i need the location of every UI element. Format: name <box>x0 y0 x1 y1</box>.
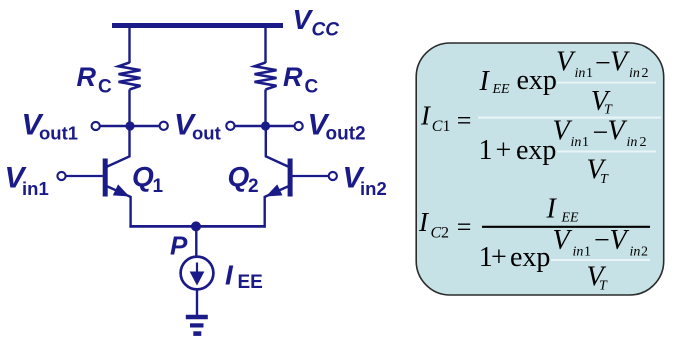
wire node B to collector Q2 <box>266 126 289 167</box>
transistor Q2 emitter arrow <box>267 185 282 196</box>
transistor Q1 emitter <box>107 186 130 197</box>
formula IC1 light fraction bar exponent top <box>557 82 656 84</box>
terminal Vout2 <box>295 122 303 130</box>
ground bar 1 <box>186 315 208 320</box>
svg-text:1: 1 <box>443 118 451 135</box>
formula IC1 light fraction bar main <box>478 116 661 118</box>
svg-text:1: 1 <box>582 135 589 150</box>
svg-text:EE: EE <box>561 211 580 226</box>
svg-text:out: out <box>192 123 221 144</box>
svg-text:1: 1 <box>586 66 593 81</box>
svg-text:V: V <box>610 47 630 78</box>
formula IC2 light fraction bar exponent <box>551 259 650 261</box>
current source IEE arrow shaft <box>196 263 198 273</box>
wire current source to ground <box>196 289 198 315</box>
svg-text:in: in <box>575 66 586 81</box>
formula IC2 fraction bar <box>482 226 650 228</box>
junction node A <box>125 121 134 130</box>
junction node P <box>191 221 201 231</box>
svg-text:V: V <box>553 225 573 256</box>
svg-text:exp: exp <box>516 135 556 166</box>
wire Vout1 terminal to node A <box>99 125 130 127</box>
svg-text:I: I <box>225 260 234 291</box>
svg-text:Q: Q <box>228 161 250 192</box>
svg-text:in: in <box>627 135 638 150</box>
svg-text:+: + <box>496 135 512 166</box>
terminal Vout left <box>160 122 168 130</box>
svg-text:I: I <box>479 66 491 97</box>
svg-text:R: R <box>77 62 97 92</box>
svg-text:in1: in1 <box>22 178 49 199</box>
current source IEE arrowhead <box>190 272 205 286</box>
svg-text:in2: in2 <box>360 178 387 199</box>
wire resistor RC1 to node A <box>128 90 130 127</box>
wire tail rail <box>129 225 265 228</box>
wire node B to Vout2 terminal <box>266 125 296 127</box>
wire emitter Q1 to tail rail <box>129 196 131 228</box>
svg-text:exp: exp <box>510 242 550 273</box>
svg-text:Q: Q <box>132 161 154 192</box>
wire emitter Q2 to tail rail <box>264 196 266 228</box>
wire VCC bar to resistor RC1 <box>128 27 130 63</box>
svg-text:+: + <box>491 242 507 273</box>
svg-text:1: 1 <box>153 176 164 197</box>
current source IEE circle <box>181 257 214 290</box>
svg-text:out1: out1 <box>39 123 78 144</box>
svg-text:in: in <box>571 135 582 150</box>
wire Vout right terminal to node B <box>234 125 266 127</box>
svg-text:=: = <box>457 106 472 135</box>
svg-text:I: I <box>546 194 558 225</box>
wire VCC bar to resistor RC2 <box>264 27 266 63</box>
svg-text:C: C <box>431 225 442 242</box>
resistor RC1 <box>119 63 141 90</box>
svg-text:V: V <box>556 47 576 78</box>
wire base Q1 <box>65 175 103 177</box>
svg-text:in: in <box>629 66 640 81</box>
svg-text:C: C <box>98 77 112 98</box>
svg-text:R: R <box>283 62 303 92</box>
svg-text:=: = <box>457 212 472 241</box>
svg-text:2: 2 <box>248 176 259 197</box>
terminal Vin2 <box>329 172 337 180</box>
svg-text:EE: EE <box>492 82 511 97</box>
svg-text:V: V <box>293 4 314 35</box>
svg-text:P: P <box>170 231 188 261</box>
svg-text:in: in <box>630 245 641 260</box>
svg-text:T: T <box>600 172 609 187</box>
svg-text:C: C <box>305 77 319 98</box>
svg-text:EE: EE <box>238 272 263 293</box>
svg-text:out2: out2 <box>326 124 366 145</box>
svg-text:−: − <box>593 118 609 149</box>
resistor RC2 <box>255 63 277 90</box>
terminal Vout right <box>226 122 234 130</box>
terminal Vin1 <box>57 172 65 180</box>
svg-text:−: − <box>594 225 610 256</box>
ground bar 2 <box>190 323 204 327</box>
svg-text:−: − <box>595 48 611 79</box>
wire node A to collector Q1 <box>107 126 130 167</box>
transistor Q1 emitter arrow <box>114 185 129 196</box>
terminal Vout1 <box>92 122 100 130</box>
svg-text:1: 1 <box>479 135 493 166</box>
equation box <box>416 43 664 295</box>
svg-text:C: C <box>432 118 443 135</box>
svg-text:V: V <box>553 116 573 147</box>
svg-text:2: 2 <box>641 245 648 260</box>
svg-text:V: V <box>610 225 630 256</box>
wire node A to Vout left terminal <box>130 125 160 127</box>
wire node P to current source IEE <box>195 226 197 256</box>
junction node B <box>261 121 270 130</box>
formula IC1 light fraction bar exponent bottom <box>557 151 656 153</box>
svg-text:1: 1 <box>584 245 591 260</box>
wire VCC supply bar <box>112 23 283 28</box>
ground bar 3 <box>193 331 201 336</box>
transistor Q2 base bar <box>288 159 293 197</box>
svg-text:2: 2 <box>640 135 647 150</box>
wire base Q2 <box>293 175 330 177</box>
svg-text:CC: CC <box>312 20 340 41</box>
wire resistor RC2 to node B <box>264 90 266 127</box>
transistor Q1 base bar <box>103 159 108 197</box>
svg-text:V: V <box>608 116 628 147</box>
svg-text:in: in <box>573 245 584 260</box>
svg-text:2: 2 <box>441 225 449 242</box>
svg-text:2: 2 <box>642 66 649 81</box>
svg-text:exp: exp <box>517 65 557 96</box>
transistor Q2 emitter <box>265 186 288 197</box>
svg-text:T: T <box>599 279 608 294</box>
